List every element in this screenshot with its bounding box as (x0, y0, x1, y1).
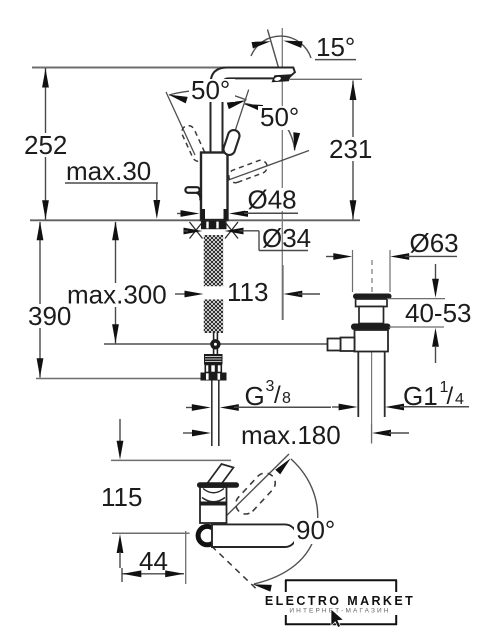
svg-text:G: G (245, 381, 265, 411)
svg-text:252: 252 (24, 130, 67, 160)
svg-text:/: / (274, 382, 281, 409)
svg-text:Ø34: Ø34 (262, 223, 311, 253)
svg-text:50°: 50° (191, 75, 230, 105)
svg-text:4: 4 (455, 391, 464, 408)
svg-text:90°: 90° (296, 515, 335, 545)
svg-text:Ø63: Ø63 (410, 228, 459, 258)
svg-text:max.30: max.30 (66, 156, 151, 186)
svg-text:/: / (447, 383, 454, 410)
svg-text:231: 231 (329, 134, 372, 164)
svg-text:40-53: 40-53 (405, 298, 472, 328)
svg-text:ELECTRO MARKET: ELECTRO MARKET (265, 594, 415, 608)
svg-text:50°: 50° (260, 102, 299, 132)
svg-text:max.300: max.300 (67, 280, 167, 310)
svg-text:Ø48: Ø48 (248, 185, 297, 215)
svg-text:G1: G1 (403, 381, 438, 411)
svg-text:ИНТЕРНЕТ-МАГАЗИН: ИНТЕРНЕТ-МАГАЗИН (289, 608, 390, 615)
svg-text:113: 113 (227, 277, 268, 307)
svg-text:max.180: max.180 (241, 420, 341, 450)
svg-text:8: 8 (282, 390, 291, 407)
svg-text:115: 115 (101, 482, 142, 512)
svg-text:44: 44 (139, 546, 168, 576)
svg-text:15°: 15° (316, 32, 355, 62)
